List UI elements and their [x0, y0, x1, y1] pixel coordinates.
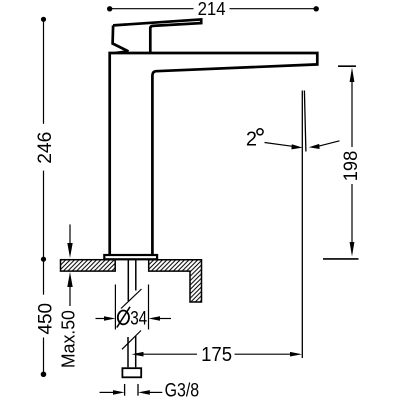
- vertical reference line (2 deg): [301, 91, 303, 359]
- countertop right slab with corner leg (hatched): [149, 260, 202, 302]
- faucet body and spout outline: [110, 53, 318, 255]
- base flange: [104, 255, 157, 259]
- arrow tails G3/8: [100, 391, 163, 393]
- arrow right-pointing (O34): [104, 316, 115, 320]
- dimension line 198 (right): [351, 81, 353, 243]
- dimension G3/8 extension ticks: [125, 384, 138, 396]
- arrow tails O34: [96, 318, 172, 320]
- label O34 diameter symbol: [118, 311, 129, 325]
- pipe break line 1: [121, 289, 142, 309]
- dimension dot middle (246/450): [41, 257, 46, 262]
- countertop left slab (hatched): [61, 260, 116, 271]
- dimension dot right (214): [314, 6, 319, 11]
- arrow up (198): [350, 68, 355, 83]
- arrow left-pointing (175): [132, 352, 144, 357]
- svg-text:2: 2: [246, 129, 257, 151]
- arrow right-pointing (2 deg): [291, 144, 302, 149]
- arrow down (Max.50): [67, 243, 72, 258]
- arrow up (Max.50): [67, 272, 72, 287]
- arrow right-pointing (G3/8): [113, 390, 125, 395]
- svg-text:214: 214: [198, 0, 226, 19]
- lever handle base: [113, 25, 129, 51]
- svg-text:G3/8: G3/8: [165, 380, 200, 400]
- svg-text:34: 34: [130, 307, 147, 329]
- tilted stream line (2 deg): [304, 91, 306, 152]
- svg-text:Max.50: Max.50: [58, 310, 79, 368]
- dimension line 214 (top): [110, 8, 316, 10]
- dimension line 175: [143, 353, 291, 355]
- arrow down (198): [350, 242, 355, 257]
- extension tick bottom (198): [323, 258, 359, 260]
- dimension dot left (214): [107, 6, 112, 11]
- supply pipe lower segment: [128, 336, 136, 367]
- arrow left-pointing (G3/8): [138, 390, 150, 395]
- arrow left-pointing (O34): [149, 316, 161, 320]
- dimension Max.50 lines: [69, 224, 71, 306]
- svg-text:175: 175: [201, 344, 232, 366]
- lever handle bar: [113, 19, 201, 52]
- leader line left (2 deg): [265, 143, 293, 147]
- arrow left-pointing (2 deg): [309, 144, 320, 149]
- extension tick top (198): [338, 65, 356, 67]
- dimension line 246/450 (left): [43, 19, 45, 374]
- arrow right-pointing (175): [290, 352, 302, 357]
- svg-text:450: 450: [36, 303, 57, 335]
- pipe break line 2: [122, 331, 141, 350]
- dimension dot bottom (450): [41, 372, 47, 378]
- svg-text:198: 198: [341, 151, 362, 182]
- svg-text:246: 246: [35, 132, 56, 164]
- handle gap wedge line: [115, 51, 128, 53]
- leader line right (2 deg): [318, 141, 340, 147]
- supply pipe upper segment: [128, 260, 136, 301]
- dimension dot top (246): [41, 17, 46, 22]
- G3/8 connector nut: [122, 368, 141, 377]
- dimension O34 extension lines: [115, 285, 148, 330]
